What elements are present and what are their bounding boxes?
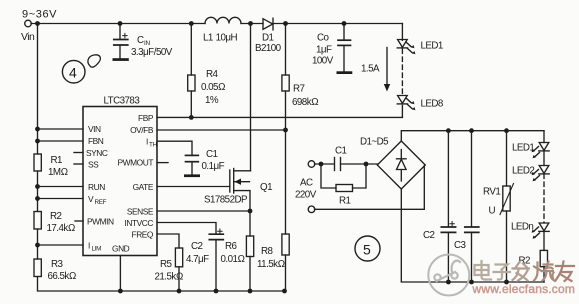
svg-text:U: U	[489, 206, 496, 217]
wire INTVCC	[157, 223, 216, 235]
svg-text:IN: IN	[144, 40, 150, 47]
wire VIN pin	[38, 128, 84, 130]
LED LED8	[397, 96, 415, 111]
stub SYNC	[74, 152, 83, 154]
svg-text:LED2: LED2	[512, 166, 534, 177]
LED chain column	[543, 131, 545, 143]
node C3 top	[469, 128, 474, 133]
resistor R6 0.01	[246, 211, 253, 291]
svg-text:LED1: LED1	[421, 41, 443, 52]
svg-text:R1: R1	[339, 196, 351, 207]
rectifier bridge D1~D5	[377, 141, 425, 189]
svg-text:TH: TH	[149, 142, 158, 149]
annotation circled 5	[355, 236, 380, 261]
wire to ground rail	[38, 277, 286, 292]
watermark glyph 子	[494, 265, 511, 280]
svg-text:FBP: FBP	[138, 113, 154, 123]
wire from terminal 1	[315, 163, 335, 165]
AC terminal 1	[308, 161, 315, 168]
node C2 gnd	[214, 289, 219, 294]
svg-text:C2: C2	[423, 230, 435, 241]
svg-text:PWMIN: PWMIN	[87, 217, 114, 227]
LED LEDn	[532, 223, 550, 239]
wire RUN pin	[38, 186, 84, 188]
capacitor CIN 3.3uF/50V	[113, 24, 129, 61]
node C2 bottom	[446, 280, 451, 285]
resistor R8 11.5k	[282, 130, 289, 291]
resistor R1 1M	[34, 154, 41, 171]
node C2 top	[446, 128, 451, 133]
node RV1 bottom	[504, 280, 509, 285]
capacitor Co 1uF 100V	[337, 24, 353, 75]
svg-text:R7: R7	[293, 84, 305, 95]
watermark glyph 电	[475, 261, 492, 280]
LED LED1	[397, 40, 415, 55]
wire bridge top to DC+ rail	[401, 131, 544, 141]
node Q1 source	[248, 209, 253, 214]
capacitor C1 0.1uF	[184, 155, 200, 177]
svg-text:C1: C1	[335, 146, 347, 157]
svg-text:RUN: RUN	[88, 182, 105, 192]
resistor R2 (chain)	[540, 250, 547, 266]
svg-text:SS: SS	[88, 160, 99, 170]
svg-text:LED1: LED1	[512, 143, 534, 154]
LED string column	[401, 24, 403, 41]
svg-text:LEDn: LEDn	[511, 222, 533, 233]
node VREF tap	[35, 196, 40, 201]
svg-text:L1 10μH: L1 10μH	[203, 33, 238, 44]
dashed wire	[401, 49, 403, 96]
svg-text:21.5k Ω: 21.5k Ω	[155, 272, 183, 283]
input terminal Vin	[25, 20, 32, 27]
node GND	[118, 289, 123, 294]
svg-text:R1: R1	[51, 155, 63, 166]
inductor L1	[205, 17, 241, 23]
svg-text:3.3μF /50V: 3.3μF /50V	[131, 47, 173, 58]
svg-text:1%: 1%	[205, 95, 219, 106]
wire	[543, 151, 545, 166]
svg-text:RV1: RV1	[483, 187, 500, 198]
svg-text:C3: C3	[454, 240, 467, 251]
wire VREF pin	[38, 198, 84, 200]
resistor R5 21.5k	[175, 248, 182, 291]
wire	[37, 229, 39, 259]
current arrow 1.5A	[384, 48, 390, 92]
svg-text:4: 4	[69, 65, 77, 81]
capacitor C3	[465, 131, 479, 282]
wire left divider rail	[37, 24, 39, 155]
wire bridge bottom to DC- rail	[401, 189, 544, 282]
resistor R4 0.05	[188, 24, 195, 118]
svg-text:1.5A: 1.5A	[361, 64, 380, 75]
svg-text:R2: R2	[50, 211, 62, 222]
resistor R3 66.5k	[34, 259, 41, 277]
wire ITH	[157, 141, 192, 155]
svg-text:R4: R4	[206, 69, 219, 80]
wire LED return	[401, 105, 403, 117]
wire	[543, 267, 545, 282]
wire ILIM pin	[38, 244, 84, 246]
svg-text:I: I	[146, 137, 148, 147]
svg-text:INTVCC: INTVCC	[125, 218, 154, 228]
node: R4 top	[189, 21, 194, 26]
node: input rail to divider	[35, 21, 40, 26]
annotation squiggle	[88, 55, 100, 67]
transistor Q1 S17852DP	[230, 24, 251, 212]
svg-text:9~36V: 9~36V	[22, 9, 57, 21]
svg-text:698k Ω: 698k Ω	[292, 97, 318, 108]
svg-text:LED8: LED8	[421, 99, 444, 110]
svg-text:4.7μF: 4.7μF	[186, 254, 209, 265]
node: Co tap	[342, 21, 347, 26]
watermark url www.elecfans.com	[472, 282, 576, 296]
svg-text:Vin: Vin	[21, 32, 35, 43]
svg-text:VIN: VIN	[88, 124, 101, 134]
svg-text:PWMOUT: PWMOUT	[118, 158, 154, 168]
node FBN tap	[35, 139, 40, 144]
wire OV/FB	[157, 129, 286, 131]
svg-text:R8: R8	[261, 246, 274, 257]
svg-text:SENSE: SENSE	[127, 207, 154, 217]
svg-text:220V: 220V	[295, 190, 317, 201]
capacitor C2 (dc)	[441, 131, 455, 282]
svg-text:Q1: Q1	[260, 182, 272, 193]
node R4 bottom	[189, 115, 194, 120]
svg-text:1M Ω: 1M Ω	[48, 167, 68, 178]
capacitor C2 4.7uF	[209, 229, 223, 291]
varistor RV1	[500, 131, 514, 282]
node C1/R1 left	[319, 162, 324, 167]
wire SENSE	[157, 210, 250, 212]
svg-text:0.1μF: 0.1μF	[202, 161, 225, 172]
stub PWMOUT	[157, 162, 168, 164]
wire FREQ	[157, 234, 179, 248]
svg-text:17.4k Ω: 17.4k Ω	[47, 223, 75, 234]
node RUN tap	[35, 184, 40, 189]
svg-text:LIM: LIM	[92, 246, 102, 253]
wire top rail right	[273, 23, 403, 25]
svg-text:R6: R6	[225, 241, 238, 252]
watermark glyph 友	[556, 262, 575, 282]
stub PWMIN	[75, 220, 83, 222]
resistor R7 698k	[282, 24, 289, 131]
wire	[37, 171, 39, 212]
svg-text:GND: GND	[112, 244, 130, 254]
svg-text:5: 5	[363, 242, 371, 258]
wire GND pin	[119, 256, 121, 292]
svg-text:1μF: 1μF	[316, 45, 332, 56]
node R5 gnd	[177, 289, 182, 294]
svg-text:LTC3783: LTC3783	[104, 96, 141, 107]
wire GATE	[157, 186, 230, 188]
LED LED2	[532, 166, 550, 182]
svg-text:C2: C2	[191, 241, 203, 252]
svg-text:100V: 100V	[312, 56, 334, 67]
svg-text:C1: C1	[206, 149, 218, 160]
svg-text:C: C	[137, 35, 144, 46]
node: CIN tap	[118, 21, 123, 26]
wire L1 to D1	[241, 23, 263, 25]
node C3 bottom	[469, 280, 474, 285]
svg-text:FBN: FBN	[88, 136, 104, 146]
watermark glyph 烧	[534, 262, 554, 281]
node RV1 top	[504, 128, 509, 133]
svg-text:Co: Co	[317, 33, 330, 44]
annotation circled 4	[62, 60, 85, 83]
wire bridge right to AC terminal 2	[315, 166, 425, 210]
svg-text:GATE: GATE	[133, 182, 154, 192]
wire to bridge	[341, 163, 378, 165]
watermark glyph 发	[513, 262, 530, 281]
node FB divider	[283, 128, 288, 133]
wire top rail left	[31, 23, 205, 25]
node VIN tap	[35, 127, 40, 132]
svg-text:OV/FB: OV/FB	[130, 125, 154, 135]
svg-text:I: I	[88, 241, 90, 251]
op IC U1 LTC3783	[83, 107, 157, 256]
node C1/R1 right	[364, 162, 369, 167]
node ILIM tap	[35, 243, 40, 248]
svg-text:D1: D1	[262, 33, 274, 44]
svg-text:0.05 Ω: 0.05 Ω	[201, 82, 225, 93]
node R8 gnd	[282, 289, 287, 294]
svg-text:AC: AC	[300, 178, 313, 189]
dashed wire	[543, 174, 545, 223]
svg-text:11.5k Ω: 11.5k Ω	[257, 259, 285, 270]
svg-text:66.5k Ω: 66.5k Ω	[48, 271, 76, 282]
wire FBN pin	[38, 140, 84, 142]
node: switch node (L1/D1/Q1 drain)	[248, 21, 253, 26]
svg-text:V: V	[88, 194, 94, 204]
wire	[543, 231, 545, 250]
stub SS	[74, 163, 83, 165]
svg-text:SYNC: SYNC	[86, 148, 108, 158]
resistor R2 17.4k	[34, 212, 41, 230]
svg-text:www.elecfans.com: www.elecfans.com	[472, 282, 576, 296]
wire FBP / LED return	[157, 116, 402, 118]
AC terminal 2	[308, 206, 315, 213]
capacitor C1 (mains)	[335, 158, 341, 171]
svg-text:FREQ: FREQ	[132, 230, 154, 240]
svg-text:0.01 Ω: 0.01 Ω	[221, 254, 245, 265]
svg-text:B2100: B2100	[255, 43, 282, 54]
svg-text:REF: REF	[95, 199, 107, 206]
diode D1 B2100	[263, 18, 273, 30]
svg-text:R3: R3	[51, 259, 64, 270]
svg-text:D1~D5: D1~D5	[360, 137, 389, 148]
node R6 gnd	[248, 289, 253, 294]
svg-text:R5: R5	[160, 259, 173, 270]
node: output (D1 cathode)	[283, 21, 288, 26]
svg-text:S17852DP: S17852DP	[204, 195, 248, 206]
LED LED1 (chain)	[532, 143, 550, 159]
resistor R1 (mains) parallel branch	[321, 164, 366, 192]
